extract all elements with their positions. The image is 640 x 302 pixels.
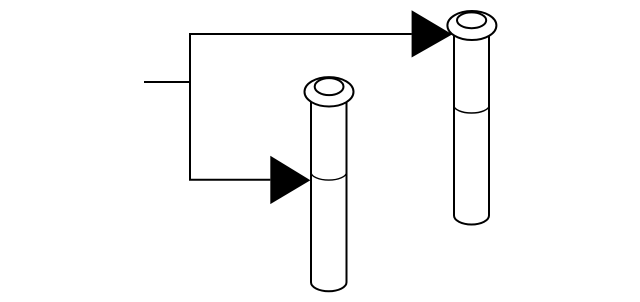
bolt 2 head dome <box>457 12 486 28</box>
arrowhead to bolt 1 <box>270 156 310 204</box>
bolt 1 head dome <box>315 78 344 95</box>
leader bracket wire <box>190 34 412 180</box>
bolt 2 head flange <box>447 11 496 40</box>
bolt 1 body <box>311 100 347 291</box>
bolt 2 body <box>454 36 489 225</box>
bolt 1 shank band <box>311 172 347 180</box>
bolt 2 shank band <box>454 106 489 114</box>
leader stub line <box>144 81 190 83</box>
bolt 1 head flange <box>305 77 354 106</box>
arrowhead to bolt 2 <box>412 10 453 57</box>
